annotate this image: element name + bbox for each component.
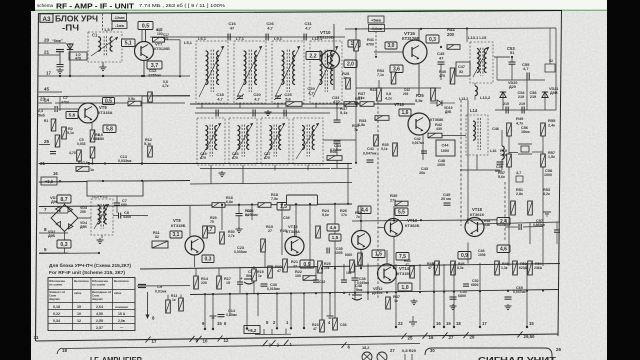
wire x335 bottom	[334, 268, 336, 318]
wire y268 bus	[140, 264, 560, 270]
resistor base VT16	[375, 116, 389, 121]
resistor R21 body	[268, 266, 273, 278]
wire x335 drop	[334, 205, 336, 269]
transistor VT14 KT315B	[378, 264, 397, 283]
wire pin20 drop	[69, 43, 71, 76]
wire C57 row	[505, 226, 518, 228]
left bus pin 7	[39, 212, 68, 214]
resistor R19 body2	[261, 239, 266, 252]
wire vt12 up	[294, 225, 296, 237]
wire x239 down	[238, 205, 240, 214]
wire right area verticals	[466, 29, 468, 42]
wire x337	[336, 104, 338, 120]
svg-text:RF - AMP - IF - UNIT: RF - AMP - IF - UNIT	[56, 2, 134, 11]
dashed vertical x461	[460, 100, 462, 226]
diode VD21	[542, 92, 548, 98]
capacitor C18	[215, 110, 217, 117]
wire y80 right	[497, 79, 545, 81]
wire y88 segment	[356, 87, 421, 89]
voltage box 0.3 VT8	[202, 255, 214, 263]
voltage box 3.7	[147, 61, 162, 69]
capacitor C40 body	[237, 281, 243, 283]
capacitor C42 body	[421, 150, 427, 152]
electrolytic C26 body	[244, 282, 254, 284]
wire VT10 collector up	[333, 24, 335, 51]
wire y76 to right	[142, 75, 190, 77]
wire L13 out	[494, 56, 510, 58]
resistor R40	[450, 68, 455, 84]
table frame	[48, 278, 135, 331]
wire trafo bottom	[101, 235, 103, 238]
junction dots y163	[88, 162, 90, 164]
ground under C2	[59, 68, 61, 70]
long bus y163	[39, 163, 352, 165]
resistor R39 body	[395, 201, 408, 206]
header green separator line	[31, 9, 607, 11]
title block box A3	[40, 14, 53, 22]
coil L14	[466, 115, 488, 155]
arrow down pin 8	[147, 292, 149, 315]
capacitor C38	[352, 277, 359, 279]
voltage box 1.5 center2	[329, 234, 341, 241]
voltage box 0.9 VT18	[458, 252, 471, 260]
bottom pins right verticals	[395, 264, 397, 300]
wire vt9 emitter2	[91, 123, 93, 130]
filter L9 section	[272, 41, 304, 103]
wire vt11 emitter down	[360, 250, 362, 268]
title block separator	[102, 14, 104, 31]
left bus pin 17	[39, 75, 143, 77]
stub line y334	[255, 333, 291, 335]
capacitor C57	[521, 107, 523, 114]
wire R17 up	[218, 268, 220, 276]
capacitor C1 plates	[56, 49, 64, 51]
transistor VT12 KT315A	[285, 237, 304, 256]
ground bottom x213	[210, 315, 217, 317]
transistor VT10 KT3126B	[322, 51, 340, 69]
pin stubs bottom center	[204, 294, 206, 329]
capacitor input VT9	[54, 106, 56, 112]
wire x60 vt9	[59, 96, 61, 111]
wire C45 drop	[440, 64, 442, 80]
wire y170 bus	[331, 167, 352, 169]
diode VD20	[500, 92, 506, 98]
voltage box 5.6	[66, 112, 78, 119]
resistor R51c body	[377, 88, 382, 101]
wire x344 b	[343, 264, 345, 280]
wire y205 bus	[39, 204, 352, 207]
ground small x413	[409, 321, 417, 323]
left bus pin 8	[39, 232, 68, 234]
wire y103 mid	[55, 102, 185, 104]
wire C1 drop	[59, 52, 61, 64]
resistor R43 body	[435, 261, 440, 275]
voltage box 7.5 VT13	[396, 253, 409, 261]
frame top border	[38, 11, 562, 14]
ground C60	[507, 304, 509, 306]
box C47 trimmer	[456, 62, 470, 76]
trimmer C17	[237, 95, 243, 97]
resistor R24 body	[316, 226, 321, 238]
wire y113 cap row	[195, 112, 330, 114]
voltage box 3.1 VT8	[170, 231, 182, 238]
top filter coupling wire	[192, 36, 345, 38]
transformer T1 input	[88, 32, 122, 62]
wire filter2 bottom	[200, 168, 330, 170]
diode VD19 body	[437, 100, 442, 106]
wire x296 drop	[295, 205, 297, 238]
wire x190 up	[189, 206, 191, 236]
resistor R53c body	[431, 88, 436, 101]
resistor R10 body	[507, 154, 512, 167]
resistor R17t body	[153, 38, 165, 43]
wire y253 stub	[39, 252, 99, 255]
wire vt18 down	[467, 243, 469, 264]
box 52 small	[545, 64, 555, 72]
wire bridge to trafo	[78, 217, 91, 219]
long bus y181	[39, 181, 190, 183]
voltage box 1.6 VT16	[399, 109, 411, 116]
voltage box 2.0	[344, 60, 357, 68]
IF filter ZQ2	[229, 118, 257, 165]
capacitor C57b	[518, 224, 520, 230]
dashed vertical x505	[504, 182, 506, 240]
wire x252 drop	[251, 205, 253, 221]
resistor R51 body	[511, 201, 516, 215]
wire x254 b	[253, 266, 255, 269]
pin row right	[395, 300, 397, 327]
wire x557	[556, 222, 558, 230]
frame right border	[558, 11, 562, 337]
capacitor C35 body	[326, 248, 328, 254]
diode bridge	[51, 205, 78, 232]
wire x142 mid	[141, 96, 143, 164]
capacitor C24	[236, 213, 243, 215]
box +3.9	[41, 177, 57, 185]
voltage box 1.5 VT11	[372, 250, 385, 258]
left bus pin 5	[39, 252, 68, 254]
wire x322 bottom	[321, 268, 323, 320]
junction dots on y76 bus	[59, 75, 61, 77]
resistor R10b body	[128, 101, 141, 106]
wire y110 right caps	[495, 109, 556, 111]
capacitor C51	[450, 296, 457, 298]
wire L14 to C50	[476, 155, 478, 170]
resistor R22 body	[303, 276, 316, 281]
wire VT15 emitter	[418, 64, 420, 95]
voltage box 4.6 center	[327, 224, 339, 231]
capacitor C49	[444, 202, 451, 204]
resistor R37 body	[344, 102, 357, 107]
capacitor C60	[505, 296, 512, 298]
transistor VT9 KT315A	[78, 103, 98, 123]
resistor R25c body	[318, 261, 323, 273]
voltage box 1.5 center	[277, 203, 290, 211]
transistor VT16 KT368	[408, 113, 430, 135]
wire bridge bottom	[64, 232, 66, 254]
transistor VT7 KT3126B	[135, 42, 154, 61]
wire x316 b	[315, 266, 317, 280]
capacitor C34	[334, 140, 341, 142]
resistor R29 body	[203, 226, 208, 238]
resistor R35b body	[393, 143, 398, 156]
wire bridge top up	[64, 196, 66, 205]
wire x348 drop	[347, 164, 349, 205]
wire R14 up	[195, 269, 197, 277]
wire vt13 collector down	[393, 237, 395, 268]
voltage box 0.5 VT9	[103, 98, 115, 105]
brace line under bottom	[62, 344, 420, 349]
ground under T1 transformer	[102, 65, 104, 67]
junction dots buses	[91, 162, 93, 164]
wire x282 drop	[281, 205, 283, 256]
wire x117	[116, 196, 118, 203]
voltage box 0.5 over VT7	[138, 22, 153, 30]
wire x356 vertical	[355, 29, 357, 104]
voltage box 0.9	[300, 260, 314, 268]
wire x503 vd20	[502, 92, 504, 110]
resistor R46 body	[451, 261, 456, 275]
wire vt15 junction	[421, 87, 441, 89]
resistor R11 slanted	[152, 241, 168, 248]
wire x356 mid	[355, 104, 357, 164]
resistor R25 body	[286, 102, 302, 107]
left bus pin 25	[39, 144, 50, 146]
box C2 470	[69, 52, 87, 60]
capacitor C14	[218, 314, 225, 316]
ground filter bank	[267, 110, 269, 112]
wire vt16 out	[442, 135, 466, 137]
transistor VT18 KT361K	[465, 218, 484, 237]
resistor R54 body	[391, 72, 396, 84]
wire x180 down	[179, 40, 181, 77]
filter L7 section	[234, 41, 266, 103]
ground C51	[452, 304, 454, 306]
resistor R44	[447, 45, 460, 50]
voltage box 0.3 VT15	[426, 35, 439, 43]
resistor R15 body	[252, 269, 257, 281]
bottom right unit box	[425, 348, 552, 360]
voltage box 0.3 left	[57, 240, 71, 248]
svg-text:schema: schema	[37, 3, 54, 8]
ground filter2	[221, 171, 223, 173]
wire top right bus	[345, 28, 556, 29]
blank callout box center	[287, 195, 318, 205]
resistor R41 body	[354, 40, 359, 51]
resistor R26b body	[333, 318, 338, 330]
wire callouts drop	[375, 32, 377, 57]
resistor R27 body	[360, 102, 374, 107]
diode VD1 input	[67, 44, 73, 50]
capacitor C2 bottom	[57, 64, 64, 66]
capacitor C26	[265, 34, 267, 41]
wire pin24 to cap	[39, 108, 54, 110]
transistor VT15 KT3126B	[403, 40, 427, 64]
resistor R36 body	[327, 156, 342, 161]
resistor R18 body	[258, 203, 271, 208]
wire VT15 collector	[418, 29, 420, 40]
wire y220 bus right	[352, 220, 497, 221]
capacitor C8	[118, 213, 120, 219]
ground bottom x330	[327, 315, 334, 317]
callout box 12mv	[112, 14, 127, 21]
voltage box 1.2	[348, 40, 360, 47]
bottom bracket 18	[57, 348, 62, 354]
resistor R57 body	[541, 154, 546, 167]
capacitor C53	[509, 61, 516, 63]
wire x240	[239, 267, 241, 282]
svg-text:7.74 МБ , 263 кб ( [ 9 / 1: 7.74 МБ , 263 кб ( [ 9 / 11 ] 100%	[139, 3, 225, 8]
left bus pin 45	[39, 91, 62, 93]
capacitor C25	[283, 110, 285, 117]
left black film edge	[0, 0, 31, 360]
wire x181 up	[180, 295, 182, 299]
resistor R30 body	[220, 232, 225, 244]
voltage box 3.6	[390, 65, 403, 73]
wire vt14 col	[386, 250, 388, 264]
wire x527 down	[526, 80, 528, 110]
voltage box +6.2	[244, 326, 260, 334]
resistor R45b body	[410, 266, 415, 278]
wire y184	[190, 183, 352, 185]
transistor VT11 KT315B	[352, 231, 371, 250]
resistor R17 body	[217, 276, 222, 289]
resistor R12b body	[148, 92, 153, 102]
voltage box 5.1	[122, 39, 136, 47]
capacitor C52b	[463, 283, 469, 285]
trimmer C22	[275, 95, 281, 97]
wire C9 feed	[137, 285, 190, 287]
voltage box 2.4 right	[497, 218, 510, 226]
wire x550	[549, 28, 551, 64]
resistor R16 body	[212, 203, 225, 208]
resistor R7	[76, 167, 89, 172]
frame left border / pin bus	[36, 14, 39, 342]
wire trafo to ground	[102, 62, 104, 66]
filter1 drop wires	[201, 103, 203, 108]
voltage box 8.7 VT8	[203, 226, 215, 233]
coil L16 body	[502, 146, 504, 159]
ground right R53	[543, 211, 551, 213]
resistor R52 body	[513, 261, 518, 275]
resistor R1 left	[51, 119, 56, 131]
resistor R2b	[62, 127, 67, 139]
IF filter ZQ3	[261, 118, 289, 165]
wire x310 drop	[309, 205, 311, 269]
capacitor C4 left	[50, 151, 56, 153]
wire x413 stub	[412, 316, 414, 322]
ground R37b	[413, 299, 415, 301]
voltage box 4.4	[358, 206, 371, 214]
wire y294 bus	[190, 290, 558, 295]
left bus pin 24	[39, 102, 52, 104]
resistor R15b body	[179, 298, 184, 311]
wire x468 vt18	[467, 100, 469, 224]
voltage box 2.2	[306, 52, 320, 60]
dashed vertical x378	[377, 102, 379, 298]
transformer L2 demod	[91, 199, 113, 235]
wire R17t right	[165, 39, 181, 41]
wire trafo out right	[113, 215, 118, 217]
IF filter ZQ4	[293, 118, 323, 165]
resistor R48 body	[495, 261, 500, 275]
resistor R23 body	[320, 320, 325, 332]
callout box -0.6mv	[369, 25, 385, 32]
wire y152 crystal row	[509, 152, 518, 154]
resistor R28	[346, 78, 351, 89]
capacitor C31	[303, 34, 305, 41]
voltage box 4.6 right	[497, 245, 510, 253]
wire VT16 emitter	[422, 135, 424, 160]
wire y96 long	[39, 96, 190, 97]
resistor R1b left	[55, 135, 60, 147]
resistor R53 body	[528, 201, 533, 215]
wire VT10 emitter down	[333, 69, 335, 91]
left bus pin 20	[38, 42, 66, 44]
wire x222 drop2	[221, 205, 223, 231]
wire VT15 base	[374, 51, 403, 53]
capacitor C20	[252, 110, 254, 117]
capacitor C7	[114, 202, 120, 204]
ground demod	[99, 238, 101, 240]
right black film edge	[607, 0, 640, 360]
callout box 1mv	[112, 22, 127, 29]
resistor R12	[148, 146, 153, 157]
wire filter2 out	[323, 139, 356, 141]
wire vt12 base	[264, 252, 266, 268]
capacitor C30	[261, 283, 268, 285]
wire x509 low	[508, 200, 510, 266]
wire top filter feed	[150, 36, 192, 38]
transistor VT8 KT315B	[185, 236, 204, 255]
wire x168 up	[167, 295, 169, 300]
wire y104 long bus	[190, 103, 415, 105]
wire y103 vd19	[430, 102, 437, 104]
resistor R20 body	[283, 259, 288, 272]
ground C24	[238, 227, 240, 229]
resistor R38c body	[358, 253, 363, 265]
crystal C56 body	[521, 146, 529, 152]
wire VT8 emitter down	[194, 255, 196, 267]
wire VT7 emitter	[143, 61, 145, 77]
capacitor C37 body	[341, 279, 347, 281]
wire filter bottoms	[196, 107, 342, 109]
dashed vertical x142	[141, 30, 143, 41]
wire y225 right bus	[478, 222, 560, 224]
filter L12 section	[310, 41, 342, 103]
frame bottom border	[36, 334, 559, 341]
wire x394 base vt13	[378, 227, 385, 229]
box C44 1000	[436, 140, 455, 156]
capacitor C45	[438, 61, 445, 63]
resistor R5	[90, 147, 95, 158]
transformer L13.1 L15	[470, 42, 493, 83]
voltage box 5.8	[103, 125, 116, 133]
resistor R37b body	[386, 297, 391, 309]
capacitor C32 body	[313, 279, 319, 281]
wire x543 low	[542, 200, 544, 266]
wire x502	[501, 130, 503, 146]
voltage box 5.5	[395, 208, 408, 216]
resistor R14 body	[194, 276, 199, 289]
wire VT9 emitter	[92, 158, 94, 164]
capacitor C59 body	[554, 229, 560, 231]
wire L13.2 stub	[474, 83, 476, 86]
capacitor C33	[334, 119, 341, 121]
bottom pins small	[404, 354, 406, 360]
voltage box 8.7 left	[57, 195, 71, 203]
wire x379 up	[378, 80, 380, 88]
